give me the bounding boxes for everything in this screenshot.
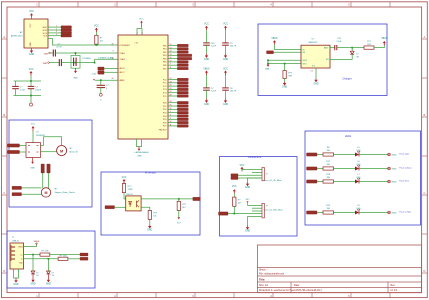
wire VBUS to U3 IN (275, 45, 302, 50)
ir section box (101, 172, 200, 235)
svg-text:3.6: 3.6 (52, 275, 55, 277)
wire XTAL2 to MCU (95, 58, 118, 60)
svg-text:10k: 10k (100, 41, 103, 43)
wire filter to gnd (30, 96, 32, 104)
wire opto out (141, 198, 193, 200)
svg-text:XTAL1: XTAL1 (120, 52, 126, 55)
junction AREF (100, 79, 102, 81)
wire SELV (268, 59, 301, 61)
pin 31 name PD1 (163, 105, 172, 108)
power flag VCC (filter) (29, 69, 34, 76)
svg-text:C-16MHz: C-16MHz (82, 58, 91, 60)
ground flag L5 (388, 153, 397, 156)
zener D2 3.6V (31, 271, 39, 277)
junction VBAT b (267, 63, 269, 65)
svg-text:AREF: AREF (120, 79, 126, 82)
resistor R1 10k (95, 35, 103, 44)
ground MCU (137, 147, 142, 158)
wire driver to motor1 top (41, 137, 62, 146)
wire XTAL2 bottom (61, 62, 94, 64)
pin 25 name PC2 (163, 85, 172, 88)
svg-text:ADNS-5020: ADNS-5020 (11, 34, 23, 37)
wire PD2 (168, 108, 177, 110)
ground C8 (223, 98, 228, 106)
svg-text:PD0: PD0 (163, 103, 167, 105)
wire PB3 to R17 (317, 168, 323, 170)
svg-text:GND: GND (245, 187, 250, 189)
svg-text:3.6: 3.6 (36, 275, 39, 277)
wire BIN2 to motor2 (48, 173, 50, 189)
wire zener1 (32, 255, 34, 272)
resistor R12 2R2 (364, 41, 374, 49)
capacitor C2 100nF (28, 81, 42, 96)
global label LED (ir) (105, 206, 115, 209)
power flag VCC (C10) (204, 24, 209, 31)
usb section box (7, 231, 95, 288)
resistor R5 4k7 (177, 201, 187, 210)
power flag VCC (conn1) (240, 165, 245, 172)
power flag VCC (C8) (223, 69, 228, 76)
global label PB3 (177, 54, 192, 57)
svg-text:VCC: VCC (223, 69, 228, 71)
wire R5 down (178, 210, 180, 217)
ground usb (14, 278, 19, 286)
svg-text:PB5: PB5 (163, 62, 167, 64)
svg-text:File: mikrocontroller.sch: File: mikrocontroller.sch (259, 273, 285, 276)
wire AIN2 (22, 193, 42, 195)
svg-text:GND: GND (30, 167, 35, 169)
svg-text:Motor_W: Motor_W (70, 151, 78, 154)
wire PB5 to R19 (317, 212, 323, 214)
global label PC4 (177, 91, 188, 94)
resistor R17 330 (323, 161, 334, 170)
svg-text:D: D (3, 269, 5, 273)
svg-text:15: 15 (170, 54, 172, 56)
wire MCU GND pins (137, 139, 142, 147)
pin 24 name PC1 (163, 81, 172, 84)
wire D+ a (24, 254, 41, 256)
usb connector J1 (10, 243, 24, 269)
wire D+ b (50, 254, 80, 256)
svg-text:+3.3V: +3.3V (91, 73, 97, 75)
resistor R6 10k (148, 210, 158, 219)
pin 10 name PD6 (163, 121, 172, 124)
wire PWMA (20, 145, 27, 147)
svg-text:PB4: PB4 (163, 58, 167, 60)
wire R17 to L6 (334, 168, 356, 170)
svg-text:VCC: VCC (223, 24, 228, 26)
svg-text:LED: LED (356, 150, 361, 152)
svg-text:PB0: PB0 (163, 45, 167, 47)
wire R7 to SCLK (233, 206, 235, 213)
resistor R3 22R (58, 255, 68, 260)
svg-text:29: 29 (112, 43, 114, 45)
wire L7 to gnd flag (359, 181, 388, 183)
motor driver U4 (26, 143, 41, 158)
junction VBAT a (267, 59, 269, 61)
wire D- a (24, 258, 59, 260)
svg-text:VCC: VCC (94, 26, 99, 28)
global label MOSI (61, 29, 72, 32)
svg-text:Rev:: Rev: (391, 284, 396, 287)
wire R1 to reset net (95, 43, 97, 46)
svg-text:ADC6: ADC6 (120, 67, 125, 70)
svg-text:Sheet: /: Sheet: / (259, 269, 268, 272)
ground C7 (204, 98, 209, 106)
wire R4 to opto (124, 193, 126, 199)
wire BIN1 to motor2 (42, 173, 44, 188)
global label PB4 (led) (307, 180, 318, 183)
wire VCC to driver (32, 132, 34, 143)
wire VCC to J3 (242, 170, 262, 172)
capacitor C7 2.2uF (203, 75, 217, 98)
global label PD5 (177, 118, 188, 121)
svg-text:VBUS: VBUS (203, 69, 210, 71)
ground C9 (223, 53, 228, 61)
svg-text:C: C (3, 191, 5, 195)
svg-text:17: 17 (170, 60, 172, 62)
global label PB5 (177, 61, 188, 64)
svg-text:PC4: PC4 (163, 93, 167, 95)
junction ir out (178, 198, 180, 200)
wire sensor NCS (48, 35, 61, 37)
capacitor C5 AREF (97, 85, 110, 90)
svg-text:PD6: PD6 (163, 122, 167, 124)
usb connector J1 ref (12, 237, 19, 242)
global label PB4 (177, 57, 192, 60)
svg-text:SELI: SELI (303, 63, 307, 65)
svg-text:GND: GND (223, 104, 228, 106)
svg-text:Size: A4: Size: A4 (259, 284, 268, 287)
pin 16 name PB4 (163, 57, 172, 60)
wire PB4 (168, 58, 177, 60)
svg-text:5: 5 (100, 99, 101, 101)
svg-text:GND: GND (392, 169, 397, 171)
motor section box (9, 120, 92, 207)
ground sensor (29, 48, 34, 56)
svg-text:4: 4 (56, 34, 57, 36)
svg-text:LED: LED (356, 177, 361, 179)
svg-text:Title:: Title: (259, 278, 265, 282)
svg-text:KiCad E.D.A. eeschema 4.0.7+e: KiCad E.D.A. eeschema 4.0.7+e2-6376~58~u… (259, 289, 322, 292)
svg-text:VBUS: VBUS (34, 241, 40, 243)
svg-text:GND: GND (29, 54, 34, 56)
svg-text:59R: 59R (288, 75, 292, 77)
svg-text:LED: LED (356, 208, 361, 210)
net flag VF (246, 199, 251, 205)
wire DD to U3 EN (274, 51, 302, 53)
svg-text:22 nF: 22 nF (56, 46, 62, 48)
wire L6 to gnd flag (359, 168, 388, 170)
svg-text:VBUS: VBUS (381, 38, 388, 40)
ground flag L7 (388, 180, 397, 183)
global label ADC7 (98, 71, 104, 74)
wire D- b (68, 258, 80, 260)
wire sensor SCLK (48, 32, 61, 34)
crystal Y1 16MHz (71, 53, 91, 68)
global label PD7 (177, 125, 188, 128)
global label PD3 (177, 111, 188, 114)
svg-text:12: 12 (170, 44, 172, 46)
pin 8 name PB7 (163, 67, 171, 70)
wire PB5 (168, 61, 177, 63)
wire ADC6 (104, 67, 118, 69)
pin 13 name PB1 (163, 47, 172, 50)
ground R11 (282, 82, 287, 89)
global label MISO (61, 26, 72, 29)
svg-text:GND: GND (392, 155, 397, 157)
svg-text:MAX1811: MAX1811 (309, 41, 319, 44)
wire R18 to L7 (334, 181, 356, 183)
junction D- zener (48, 258, 50, 260)
svg-text:D?: D? (52, 272, 54, 274)
wire BATT to C12 (330, 47, 335, 49)
svg-text:VCC: VCC (30, 23, 32, 28)
pin 28 name PC5 (163, 95, 172, 98)
wire PC4 (168, 92, 177, 94)
pin 32 name PD2 (163, 108, 172, 111)
svg-text:M: M (60, 149, 63, 153)
global label PD1 (177, 105, 188, 108)
global label PB2 (led) (307, 153, 318, 156)
wire XTAL1 (55, 52, 118, 54)
svg-text:PB6: PB6 (163, 65, 167, 67)
pin 27 name PC4 (163, 91, 172, 94)
wire VBUS from usb (24, 243, 37, 246)
wire AIN1 (22, 187, 42, 189)
svg-text:A: A (424, 35, 426, 39)
svg-text:PC2: PC2 (163, 86, 167, 88)
svg-text:PC1: PC1 (163, 83, 167, 85)
junction filter bottom (30, 95, 32, 97)
svg-text:100 nF: 100 nF (230, 46, 237, 48)
opto U5 CNY70 (126, 196, 141, 211)
svg-text:Date:: Date: (294, 284, 300, 287)
svg-text:LEDs: LEDs (345, 134, 352, 138)
svg-text:9: 9 (170, 118, 171, 120)
svg-text:1: 1 (56, 25, 57, 27)
svg-text:GND: GND (245, 231, 250, 233)
junction R11/SELI (284, 63, 286, 65)
svg-text:Conn_01_Uh_Mum: Conn_01_Uh_Mum (264, 180, 282, 182)
charger IC U3 MAX1811 (301, 39, 330, 73)
pin 12 name PB0 (163, 44, 172, 47)
pin 17 name PB5 (163, 60, 172, 63)
svg-text:C: C (423, 191, 425, 195)
global label PB1 (177, 48, 188, 51)
wire PB6 (168, 64, 177, 66)
svg-text:GND: GND (204, 104, 209, 106)
led L6 (355, 161, 361, 170)
global label PC0 (177, 78, 188, 81)
pin 26 name PC3 (163, 88, 172, 91)
wire R6 to L5 (334, 154, 356, 156)
power flag VCC (ir) (122, 177, 127, 184)
wire VCC to sensor (31, 18, 33, 19)
svg-text:M: M (45, 191, 48, 195)
junction filter top (30, 80, 32, 82)
svg-text:PD3: PD3 (163, 112, 167, 114)
ground zener2 (46, 275, 51, 286)
wire J3 gnd (248, 178, 263, 182)
svg-text:23: 23 (170, 78, 172, 80)
connectors section box (220, 157, 298, 237)
global label BIN1 (vertical) (41, 164, 44, 173)
wire R19 to L8 (334, 212, 356, 214)
svg-text:GND: GND (137, 156, 142, 158)
svg-text:MOSI: MOSI (43, 30, 48, 32)
global label PB5 (led) (307, 211, 318, 214)
global label PWMB (8, 150, 20, 153)
wire driver to motor1 left (41, 151, 57, 153)
svg-text:Face surface: Face surface (400, 166, 413, 169)
wire SELI to R11 (284, 64, 286, 71)
wire PD6 (168, 122, 177, 124)
svg-text:Face eyes: Face eyes (400, 153, 410, 155)
pin 15 name PB3 (163, 54, 172, 57)
svg-text:PB1: PB1 (163, 49, 167, 51)
resistor R11 59R (283, 71, 293, 79)
pin 30 name PD0 (163, 101, 172, 104)
wire VBAT vertical (267, 60, 269, 63)
svg-text:2.2uF: 2.2uF (211, 46, 217, 48)
capacitor C12 2.2uF (335, 38, 343, 50)
power flag VCC (MCU) (139, 18, 144, 27)
capacitor C9 100 nF (222, 30, 237, 53)
svg-text:Id: 1/1: Id: 1/1 (391, 289, 398, 292)
svg-text:32: 32 (170, 108, 172, 110)
capacitor C8 100 nF (222, 75, 237, 98)
power flag VCC (C9) (223, 24, 228, 31)
svg-text:VCC: VCC (122, 177, 127, 179)
svg-text:GND: GND (14, 284, 19, 286)
wire to R12 (352, 47, 364, 49)
svg-text:PC5: PC5 (163, 96, 167, 98)
global label PB2 (177, 51, 188, 54)
svg-text:#+ATMEGA8-AI: #+ATMEGA8-AI (134, 151, 149, 154)
svg-text:2: 2 (56, 28, 57, 30)
global label PD5 (conn) (231, 174, 238, 177)
svg-text:16: 16 (170, 57, 172, 59)
wire VCC rail down (30, 76, 32, 82)
power flag VBUS (usb) (34, 241, 40, 245)
pin 11 name PD7 (163, 124, 172, 127)
svg-text:VBUS: VBUS (271, 38, 278, 40)
svg-text:220R: 220R (128, 189, 133, 191)
svg-text:6: 6 (142, 33, 143, 35)
svg-text:MISO: MISO (43, 27, 48, 29)
wire PB1 (168, 48, 177, 50)
global label PB0 (177, 44, 188, 47)
svg-text:GND: GND (46, 283, 51, 285)
svg-text:10: 10 (112, 58, 114, 60)
ground ir (147, 224, 152, 231)
wire PD3 (168, 112, 177, 114)
ground zener1 (31, 275, 36, 286)
net flag VBB (C4) (43, 62, 50, 65)
junction crystal top (75, 52, 77, 54)
svg-text:GND: GND (30, 42, 32, 47)
global label DD- (80, 257, 88, 260)
global label PD2 (177, 108, 188, 111)
wire usb shield gnd (14, 269, 19, 278)
resistor R6 330 (323, 147, 334, 156)
power flag VCC (sensor) (29, 11, 34, 18)
mcu left pin names (112, 43, 131, 82)
wire R11 to gnd (284, 79, 286, 82)
optical sensor U1 ADNS-5020 (11, 19, 48, 48)
global label PB7 (177, 67, 188, 70)
svg-text:A: A (3, 35, 5, 39)
svg-text:ADC7: ADC7 (120, 71, 125, 74)
wire AREF down (100, 80, 102, 85)
svg-text:VCC: VCC (29, 69, 34, 71)
junction D+ zener (32, 254, 34, 256)
global label AIN1 (12, 186, 22, 189)
pin 14 name PB2 (163, 51, 172, 54)
svg-text:PC3: PC3 (163, 89, 167, 91)
svg-text:31: 31 (170, 105, 172, 107)
global label PWMA (8, 144, 20, 147)
capacitor C4 22nF (49, 59, 61, 66)
svg-text:GND: GND (223, 59, 228, 61)
pin 7 name PB6 (163, 64, 171, 67)
wire PC3 (168, 88, 177, 90)
ground AREF (open) (99, 93, 102, 101)
svg-text:B: B (3, 113, 5, 117)
wire PB2 (168, 51, 177, 53)
ground C10 (204, 53, 209, 61)
wire VF to J4 (248, 204, 263, 206)
wire VCC to R7 (233, 194, 235, 197)
wire PD4 (168, 115, 177, 117)
svg-text:2.2uF: 2.2uF (211, 91, 217, 93)
svg-text:GND: GND (392, 213, 397, 215)
wire D1 top (351, 48, 353, 52)
led L8 (355, 205, 361, 214)
pin 23 name PC0 (163, 78, 172, 81)
global label DD (267, 51, 274, 54)
svg-text:PD1: PD1 (163, 106, 167, 108)
power flag VBAT (265, 64, 270, 71)
svg-text:PB6,PD7: PB6,PD7 (159, 130, 167, 132)
power flag VBUS (charger in) (271, 38, 278, 45)
global label PD6 (177, 121, 188, 124)
wire zener2 (47, 259, 49, 272)
wire VCC to R4 (123, 183, 125, 185)
svg-text:2: 2 (170, 114, 171, 116)
wire PD5 (168, 118, 177, 120)
ground conn1 (245, 182, 250, 189)
wire C5 to gnd (100, 88, 102, 94)
svg-text:Face re-flow: Face re-flow (400, 210, 412, 213)
junction crystal mid (75, 62, 77, 64)
wire PD5 to J3 (238, 174, 262, 176)
svg-text:27: 27 (170, 91, 172, 93)
led L5 (355, 147, 361, 156)
svg-text:USB_B: USB_B (12, 240, 19, 242)
wire J4 pin2 stub (252, 207, 262, 209)
wire C12 to D1 node (337, 47, 352, 49)
pin 2 name PD4 (163, 114, 171, 117)
wire PD7 (168, 125, 177, 127)
global label AIN2 (12, 193, 22, 196)
svg-text:VCC: VCC (139, 18, 144, 20)
motor M1 (57, 146, 78, 156)
zener D3 3.6V (47, 271, 55, 277)
power flag VBUS (charger out) (381, 38, 388, 46)
global label SCLK (conn) (219, 212, 229, 215)
